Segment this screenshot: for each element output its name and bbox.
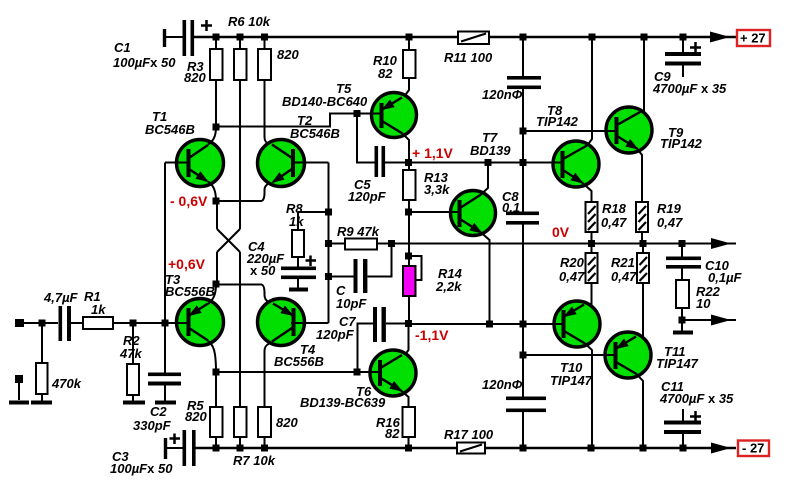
capacitor C 10pF xyxy=(329,276,354,278)
resistor R19 0,47 xyxy=(636,202,648,232)
svg-text:TIP142: TIP142 xyxy=(536,114,579,129)
resistor R10 82 xyxy=(408,37,410,50)
svg-text:0,47: 0,47 xyxy=(601,215,627,230)
resistor R21 0,47 xyxy=(642,244,644,254)
junction dot C11 / bottom rail xyxy=(680,445,687,452)
wire bottom rail left segment xyxy=(196,447,459,449)
resistor R22 10 xyxy=(676,280,689,308)
svg-text:120nΦ: 120nΦ xyxy=(482,87,523,102)
transistor T5 BD140-BC640 (PNP) xyxy=(372,93,417,138)
node dot T1 collector xyxy=(213,124,220,131)
svg-text:82: 82 xyxy=(385,426,400,441)
svg-text:4700µF x 35: 4700µF x 35 xyxy=(659,391,734,406)
junction dot C9 / top rail xyxy=(680,34,687,41)
wire C5 right to emitter node xyxy=(385,162,409,164)
junction dot 820 / top rail xyxy=(261,34,268,41)
resistor R8 1k xyxy=(298,211,329,213)
junction dot R7 / bottom rail xyxy=(237,445,244,452)
capacitor C2 330pF xyxy=(164,323,166,373)
node dot -1.1V xyxy=(405,320,412,327)
input terminal 1 xyxy=(15,319,24,327)
wire -0.6V node to T2 emitter xyxy=(216,200,262,202)
junction dot R6 / top rail xyxy=(237,34,244,41)
svg-text:+0,6V: +0,6V xyxy=(168,256,206,272)
node dot input/470k xyxy=(39,320,46,327)
transistor T8 TIP142 xyxy=(553,141,599,187)
resistor 820 (bottom, T4 collector load) xyxy=(264,351,266,407)
resistor R9 47k xyxy=(329,243,346,245)
node dot -0.6V (T1/T2 emitters) xyxy=(213,198,220,205)
svg-text:120pF: 120pF xyxy=(348,189,387,204)
wire output bus xyxy=(377,243,736,245)
wire input node up to T1 base xyxy=(164,163,166,324)
node dot +1.1V xyxy=(405,159,412,166)
node dot T3 collector xyxy=(213,369,220,376)
svg-text:0,47: 0,47 xyxy=(559,269,585,284)
ground R22 xyxy=(673,331,693,335)
crossover X wires xyxy=(216,201,218,229)
node dot R9 right xyxy=(388,240,395,247)
node dot T7 collector tap xyxy=(485,159,492,166)
junction dot 820 / bottom rail xyxy=(261,445,268,452)
wire to T9 base (crosses T8 collector) xyxy=(523,130,618,132)
svg-text:R18: R18 xyxy=(602,201,627,216)
junction dot 120n / top rail xyxy=(520,34,527,41)
svg-text:470k: 470k xyxy=(51,376,82,391)
svg-text:TIP147: TIP147 xyxy=(656,356,699,371)
capacitor 4.7uF xyxy=(59,306,63,341)
transistor T7 BD139 xyxy=(451,191,496,236)
wire +1.1V node to T8 base xyxy=(409,162,564,164)
transistor T9 TIP142 xyxy=(606,107,652,153)
transistor T10 TIP147 (PNP) xyxy=(554,301,600,347)
svg-text:0,1: 0,1 xyxy=(502,200,520,215)
wire to T11 base (crosses T10 collector) xyxy=(523,354,617,356)
wire T8 collector from rail xyxy=(588,37,593,145)
node dot input node xyxy=(162,320,169,327)
wire T7 collector up xyxy=(481,163,488,195)
capacitor C3 xyxy=(183,430,187,466)
svg-text:TIP142: TIP142 xyxy=(660,136,703,151)
svg-text:TIP147: TIP147 xyxy=(550,373,593,388)
node dot R18/R20 xyxy=(588,240,595,247)
svg-text:3,3k: 3,3k xyxy=(424,182,450,197)
wire R22 output xyxy=(682,319,736,321)
resistor R3 820 xyxy=(215,37,217,49)
svg-text:R19: R19 xyxy=(657,201,682,216)
capacitor C9 4700uF x35 xyxy=(682,37,684,52)
node dot C 10pF left xyxy=(325,273,332,280)
resistor R20 0,47 xyxy=(591,244,593,254)
node dot C10 xyxy=(679,240,686,247)
resistor R11 (100, fusible) xyxy=(458,32,489,45)
resistor R7 10k xyxy=(234,407,247,437)
wire T5 base node down to C5 xyxy=(357,114,375,163)
node dot T11 base tap xyxy=(520,352,527,359)
svg-text:820: 820 xyxy=(184,70,206,85)
svg-text:100µFx 50: 100µFx 50 xyxy=(113,55,176,70)
junction dot T9 collector / top rail xyxy=(641,34,648,41)
transistor T3 BC556B (PNP) xyxy=(177,299,224,346)
svg-text:820: 820 xyxy=(277,47,299,62)
arrow +27 output xyxy=(710,32,730,43)
capacitor C8 0,1 xyxy=(506,212,539,216)
wire T9 emitter to R19 xyxy=(637,149,642,203)
node dot T9 base tap xyxy=(520,128,527,135)
ground input2 xyxy=(9,401,29,405)
wire x523 lower xyxy=(522,225,524,398)
svg-text:820: 820 xyxy=(185,409,207,424)
svg-text:R17 100: R17 100 xyxy=(444,427,494,442)
capacitor C7 120pF xyxy=(386,323,409,325)
node dot R22 out xyxy=(679,317,686,324)
resistor R17 (100, fusible) xyxy=(457,443,485,454)
svg-text:0,1µF: 0,1µF xyxy=(708,270,743,285)
wire bottom rail right segment xyxy=(485,447,736,449)
wire T5 collector down xyxy=(403,134,410,164)
node dot R13 bottom xyxy=(405,209,412,216)
wire T9 collector from rail xyxy=(643,37,645,113)
svg-text:4,7µF: 4,7µF xyxy=(43,290,79,305)
svg-text:10: 10 xyxy=(696,296,711,311)
wire x523 bottom xyxy=(522,412,524,448)
wire x523 middle xyxy=(522,89,524,212)
svg-text:BC556B: BC556B xyxy=(274,354,324,369)
svg-text:1k: 1k xyxy=(91,302,106,317)
input terminal 2 xyxy=(15,375,23,383)
wire R20 to T10 emitter xyxy=(591,283,593,307)
capacitor C4 220uF x50 xyxy=(281,267,316,271)
transistor T1 BC546B xyxy=(177,140,224,187)
svg-text:R7 10k: R7 10k xyxy=(233,453,276,468)
ground R2 xyxy=(123,401,145,405)
wire T4 base xyxy=(291,322,329,324)
junction dot T11 collector / bottom rail xyxy=(640,445,647,452)
capacitor 120nF (top) xyxy=(507,76,541,80)
wire T5 base xyxy=(357,113,383,115)
wire T6 collector xyxy=(404,324,409,357)
wire T3 collector to T6 base xyxy=(216,371,381,373)
transistor T4 BC556B (PNP, mirrored) xyxy=(258,299,305,346)
wire T2 base to T4 base vertical xyxy=(328,163,330,324)
capacitor C10 0,1uF xyxy=(681,244,683,258)
svg-text:BD139: BD139 xyxy=(470,143,511,158)
wire C3 left lead xyxy=(165,447,183,449)
svg-text:2,2k: 2,2k xyxy=(435,279,462,294)
resistor R2 47k xyxy=(132,323,134,364)
wire T7 emitter down (crosses bus) xyxy=(481,233,490,325)
node dot C7 branch on T6 base wire xyxy=(354,369,361,376)
svg-text:R11 100: R11 100 xyxy=(444,50,493,65)
svg-text:+ 27: + 27 xyxy=(740,31,766,46)
node -27 box xyxy=(738,441,769,457)
capacitor C1 terminal bar xyxy=(163,29,166,47)
svg-text:4700µF x 35: 4700µF x 35 xyxy=(652,81,727,96)
svg-text:0V: 0V xyxy=(552,224,570,240)
wire R1 to T3 base xyxy=(113,322,190,324)
ground 470k xyxy=(31,401,52,405)
wire R21 to T11 emitter xyxy=(642,283,644,337)
svg-text:820: 820 xyxy=(276,415,298,430)
node dot T5 base xyxy=(354,110,361,117)
trimmer R14 2,2k (magenta) xyxy=(408,256,410,266)
junction dot R3 / top rail xyxy=(213,34,220,41)
capacitor C1 xyxy=(183,20,187,56)
wire to R1 xyxy=(71,322,83,324)
wire T2 base xyxy=(291,162,329,164)
svg-text:0,47: 0,47 xyxy=(611,269,637,284)
resistor R16 82 xyxy=(403,407,416,437)
junction dot T8 collector / top rail xyxy=(589,34,596,41)
wire C1 left lead xyxy=(164,36,183,38)
node +27 box xyxy=(737,30,770,46)
node dot +0.6V (T3/T4 emitters) xyxy=(213,281,220,288)
svg-text:R9 47k: R9 47k xyxy=(337,224,380,239)
svg-text:+ 1,1V: + 1,1V xyxy=(412,145,454,161)
node dot R19/R21 xyxy=(640,240,647,247)
arrow R22 output xyxy=(711,315,731,326)
svg-text:R21: R21 xyxy=(611,255,635,270)
wire T2 collector curve xyxy=(265,137,270,145)
wire +0.6V node to T4 emitter xyxy=(216,284,262,286)
svg-text:- 27: - 27 xyxy=(742,441,764,456)
resistor R13 3,3k xyxy=(408,163,410,170)
junction dot R10 / top rail xyxy=(406,34,413,41)
wire R14 wiper bracket xyxy=(409,256,422,280)
wire x523 top xyxy=(522,37,524,77)
junction dot T10 collector / bottom rail xyxy=(588,445,595,452)
wire to T7 base xyxy=(409,211,461,213)
node dot R8 tap xyxy=(325,209,332,216)
wire input to C xyxy=(24,322,58,324)
junction dot R5 / bottom rail xyxy=(213,445,220,452)
svg-text:R20: R20 xyxy=(560,255,585,270)
wire top rail right segment xyxy=(489,36,736,38)
resistor R5 820 xyxy=(215,372,217,407)
capacitor C3 terminal bar xyxy=(164,438,167,459)
node dot R14 wiper xyxy=(405,253,412,260)
svg-text:R6 10k: R6 10k xyxy=(228,14,271,29)
wire -1.1V node to T10 base xyxy=(409,323,565,325)
wire T10 collector to rail xyxy=(585,344,592,449)
resistor R18 0,47 xyxy=(586,202,598,232)
svg-text:100µFx 50: 100µFx 50 xyxy=(110,461,173,476)
wire T8 emitter to R18 xyxy=(582,183,592,203)
resistor R1 1k xyxy=(83,317,113,329)
svg-text:120nΦ: 120nΦ xyxy=(482,377,523,392)
svg-text:47k: 47k xyxy=(119,346,142,361)
ground C2 xyxy=(155,401,176,405)
arrow -27 output xyxy=(711,443,731,454)
resistor 820 (top, T2 collector load) xyxy=(264,37,266,49)
resistor 470k xyxy=(41,323,43,363)
wire T11 collector to rail xyxy=(637,374,644,448)
node dot R2 tap xyxy=(130,320,137,327)
svg-text:120pF: 120pF xyxy=(316,327,355,342)
node dot 120n/C8 tap xyxy=(520,159,527,166)
wire T1 collector to T5 base xyxy=(216,114,357,127)
arrow output xyxy=(711,238,731,249)
capacitor C5 120pF xyxy=(375,146,379,177)
node dot T7 emitter tap xyxy=(486,321,493,328)
svg-text:82: 82 xyxy=(378,66,393,81)
transistor T11 TIP147 (PNP) xyxy=(605,332,651,378)
svg-text:C1: C1 xyxy=(114,40,131,55)
capacitor C11 4700uF x35 xyxy=(682,409,684,421)
node dot R9 left xyxy=(325,240,332,247)
junction dot R16 / bottom rail xyxy=(405,445,412,452)
svg-text:C2: C2 xyxy=(150,404,167,419)
svg-text:330pF: 330pF xyxy=(133,418,172,433)
capacitor 120nF (bottom) xyxy=(506,397,546,401)
wire T6 emitter to R16 xyxy=(401,391,409,408)
svg-text:BC556B: BC556B xyxy=(165,284,215,299)
svg-text:BD140-BC640: BD140-BC640 xyxy=(282,94,368,109)
svg-text:BC546B: BC546B xyxy=(145,122,195,137)
transistor T6 BD139-BC639 xyxy=(370,350,416,396)
node dot R9/C junction xyxy=(388,240,395,247)
wire C right to R9 right xyxy=(368,244,392,277)
ground C4 xyxy=(289,288,308,292)
svg-text:BC546B: BC546B xyxy=(290,126,340,141)
svg-text:- 0,6V: - 0,6V xyxy=(170,193,208,209)
svg-text:0,47: 0,47 xyxy=(657,215,683,230)
resistor R6 10k xyxy=(239,37,241,49)
transistor T2 BC546B (mirrored) xyxy=(258,140,305,187)
svg-text:BD139-BC639: BD139-BC639 xyxy=(300,395,386,410)
svg-text:10pF: 10pF xyxy=(336,296,367,311)
svg-text:1k: 1k xyxy=(289,214,304,229)
wire top rail left segment xyxy=(194,36,459,38)
svg-text:x 50: x 50 xyxy=(250,263,276,278)
svg-text:-1,1V: -1,1V xyxy=(415,327,449,343)
node dot x523 tap xyxy=(520,321,527,328)
junction dot 120n / bottom rail xyxy=(520,445,527,452)
